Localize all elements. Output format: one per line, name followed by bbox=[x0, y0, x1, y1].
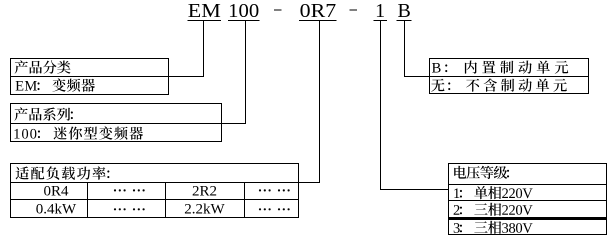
box3 column divider 3 bbox=[244, 182, 245, 218]
callout line from 0R7 bbox=[319, 21, 320, 183]
box1 text 产品分类 bbox=[15, 60, 71, 73]
box5 left edge bbox=[448, 163, 449, 235]
underline B bbox=[397, 20, 412, 21]
box5 divider 1 bbox=[448, 184, 607, 185]
box2 text 100：迷你型变频器 bbox=[15, 126, 144, 139]
title dash 1 bbox=[274, 9, 282, 10]
callout line from EM bbox=[203, 21, 204, 77]
box4 text B：内置制动单元 bbox=[432, 61, 568, 74]
box5 text 3：三相380V bbox=[454, 221, 533, 234]
box3 header divider extending to 0R7 callout bbox=[10, 182, 320, 183]
box3 middle row divider bbox=[10, 199, 299, 200]
box4 top edge bbox=[429, 58, 589, 59]
svg-text:0R4: 0R4 bbox=[43, 184, 69, 200]
box3 dots cell row2 col2 bbox=[114, 189, 116, 191]
box5 top edge bbox=[448, 163, 607, 164]
svg-text:1: 1 bbox=[375, 0, 385, 22]
box3 header 适配负载功率： bbox=[16, 166, 110, 179]
underline EM bbox=[188, 20, 222, 21]
box3 column divider 2 bbox=[165, 182, 166, 218]
box5 bottom edge bbox=[448, 234, 607, 235]
callout line from 1 (vertical) bbox=[380, 21, 381, 190]
box2 left edge bbox=[10, 103, 11, 142]
underline 1 bbox=[373, 20, 386, 21]
box5 text 2：三相220V bbox=[454, 203, 533, 216]
svg-text:2R2: 2R2 bbox=[192, 184, 217, 200]
callout line from 1 (horizontal) bbox=[380, 189, 449, 190]
box3 column divider 1 bbox=[87, 182, 88, 218]
box4 bottom edge bbox=[429, 93, 589, 94]
box2 right edge bbox=[221, 103, 222, 142]
title dash 2 bbox=[350, 9, 358, 10]
svg-text:2.2kW: 2.2kW bbox=[184, 202, 225, 218]
box1 top edge bbox=[10, 58, 169, 59]
box5 divider 3 (thick) bbox=[448, 217, 607, 220]
box2 text 产品系列： bbox=[14, 107, 73, 120]
box3 left edge bbox=[10, 163, 11, 218]
box1 left edge bbox=[10, 58, 11, 95]
box5 text 电压等级： bbox=[454, 166, 509, 179]
box5 divider 2 bbox=[448, 200, 607, 201]
box1 divider extending to EM callout bbox=[10, 76, 204, 77]
box5 text 1：单相220V bbox=[454, 186, 532, 199]
svg-text:100: 100 bbox=[228, 0, 259, 22]
box4 text 无：不含制动单元 bbox=[431, 79, 567, 92]
svg-text:EM: EM bbox=[188, 0, 221, 22]
box2 bottom edge bbox=[10, 141, 222, 142]
svg-text:0R7: 0R7 bbox=[300, 0, 337, 22]
box4 right edge bbox=[588, 58, 589, 94]
box1 right edge bbox=[168, 58, 169, 95]
box1 bottom edge bbox=[10, 94, 169, 95]
callout line from B (vertical) bbox=[404, 21, 405, 77]
svg-text:0.4kW: 0.4kW bbox=[36, 202, 77, 218]
box2 top edge bbox=[10, 103, 222, 104]
underline 100 bbox=[228, 20, 260, 21]
box5 right edge bbox=[606, 163, 607, 235]
box3 dots cell row2 col4 bbox=[259, 189, 261, 191]
box3 dots cell row3 col4 bbox=[259, 208, 261, 210]
box3 bottom edge bbox=[10, 217, 299, 218]
box4 divider extending to B callout bbox=[404, 76, 589, 77]
underline 0R7 bbox=[299, 20, 336, 21]
svg-text:B: B bbox=[398, 0, 411, 22]
box1 text EM：变频器 bbox=[16, 78, 95, 91]
box3 dots cell row3 col2 bbox=[114, 208, 116, 210]
callout line from 100 bbox=[245, 21, 246, 124]
box3 right edge bbox=[298, 163, 299, 218]
box2 divider extending to 100 callout bbox=[10, 123, 246, 124]
box4 left edge bbox=[429, 58, 430, 94]
box3 top edge bbox=[10, 163, 299, 164]
